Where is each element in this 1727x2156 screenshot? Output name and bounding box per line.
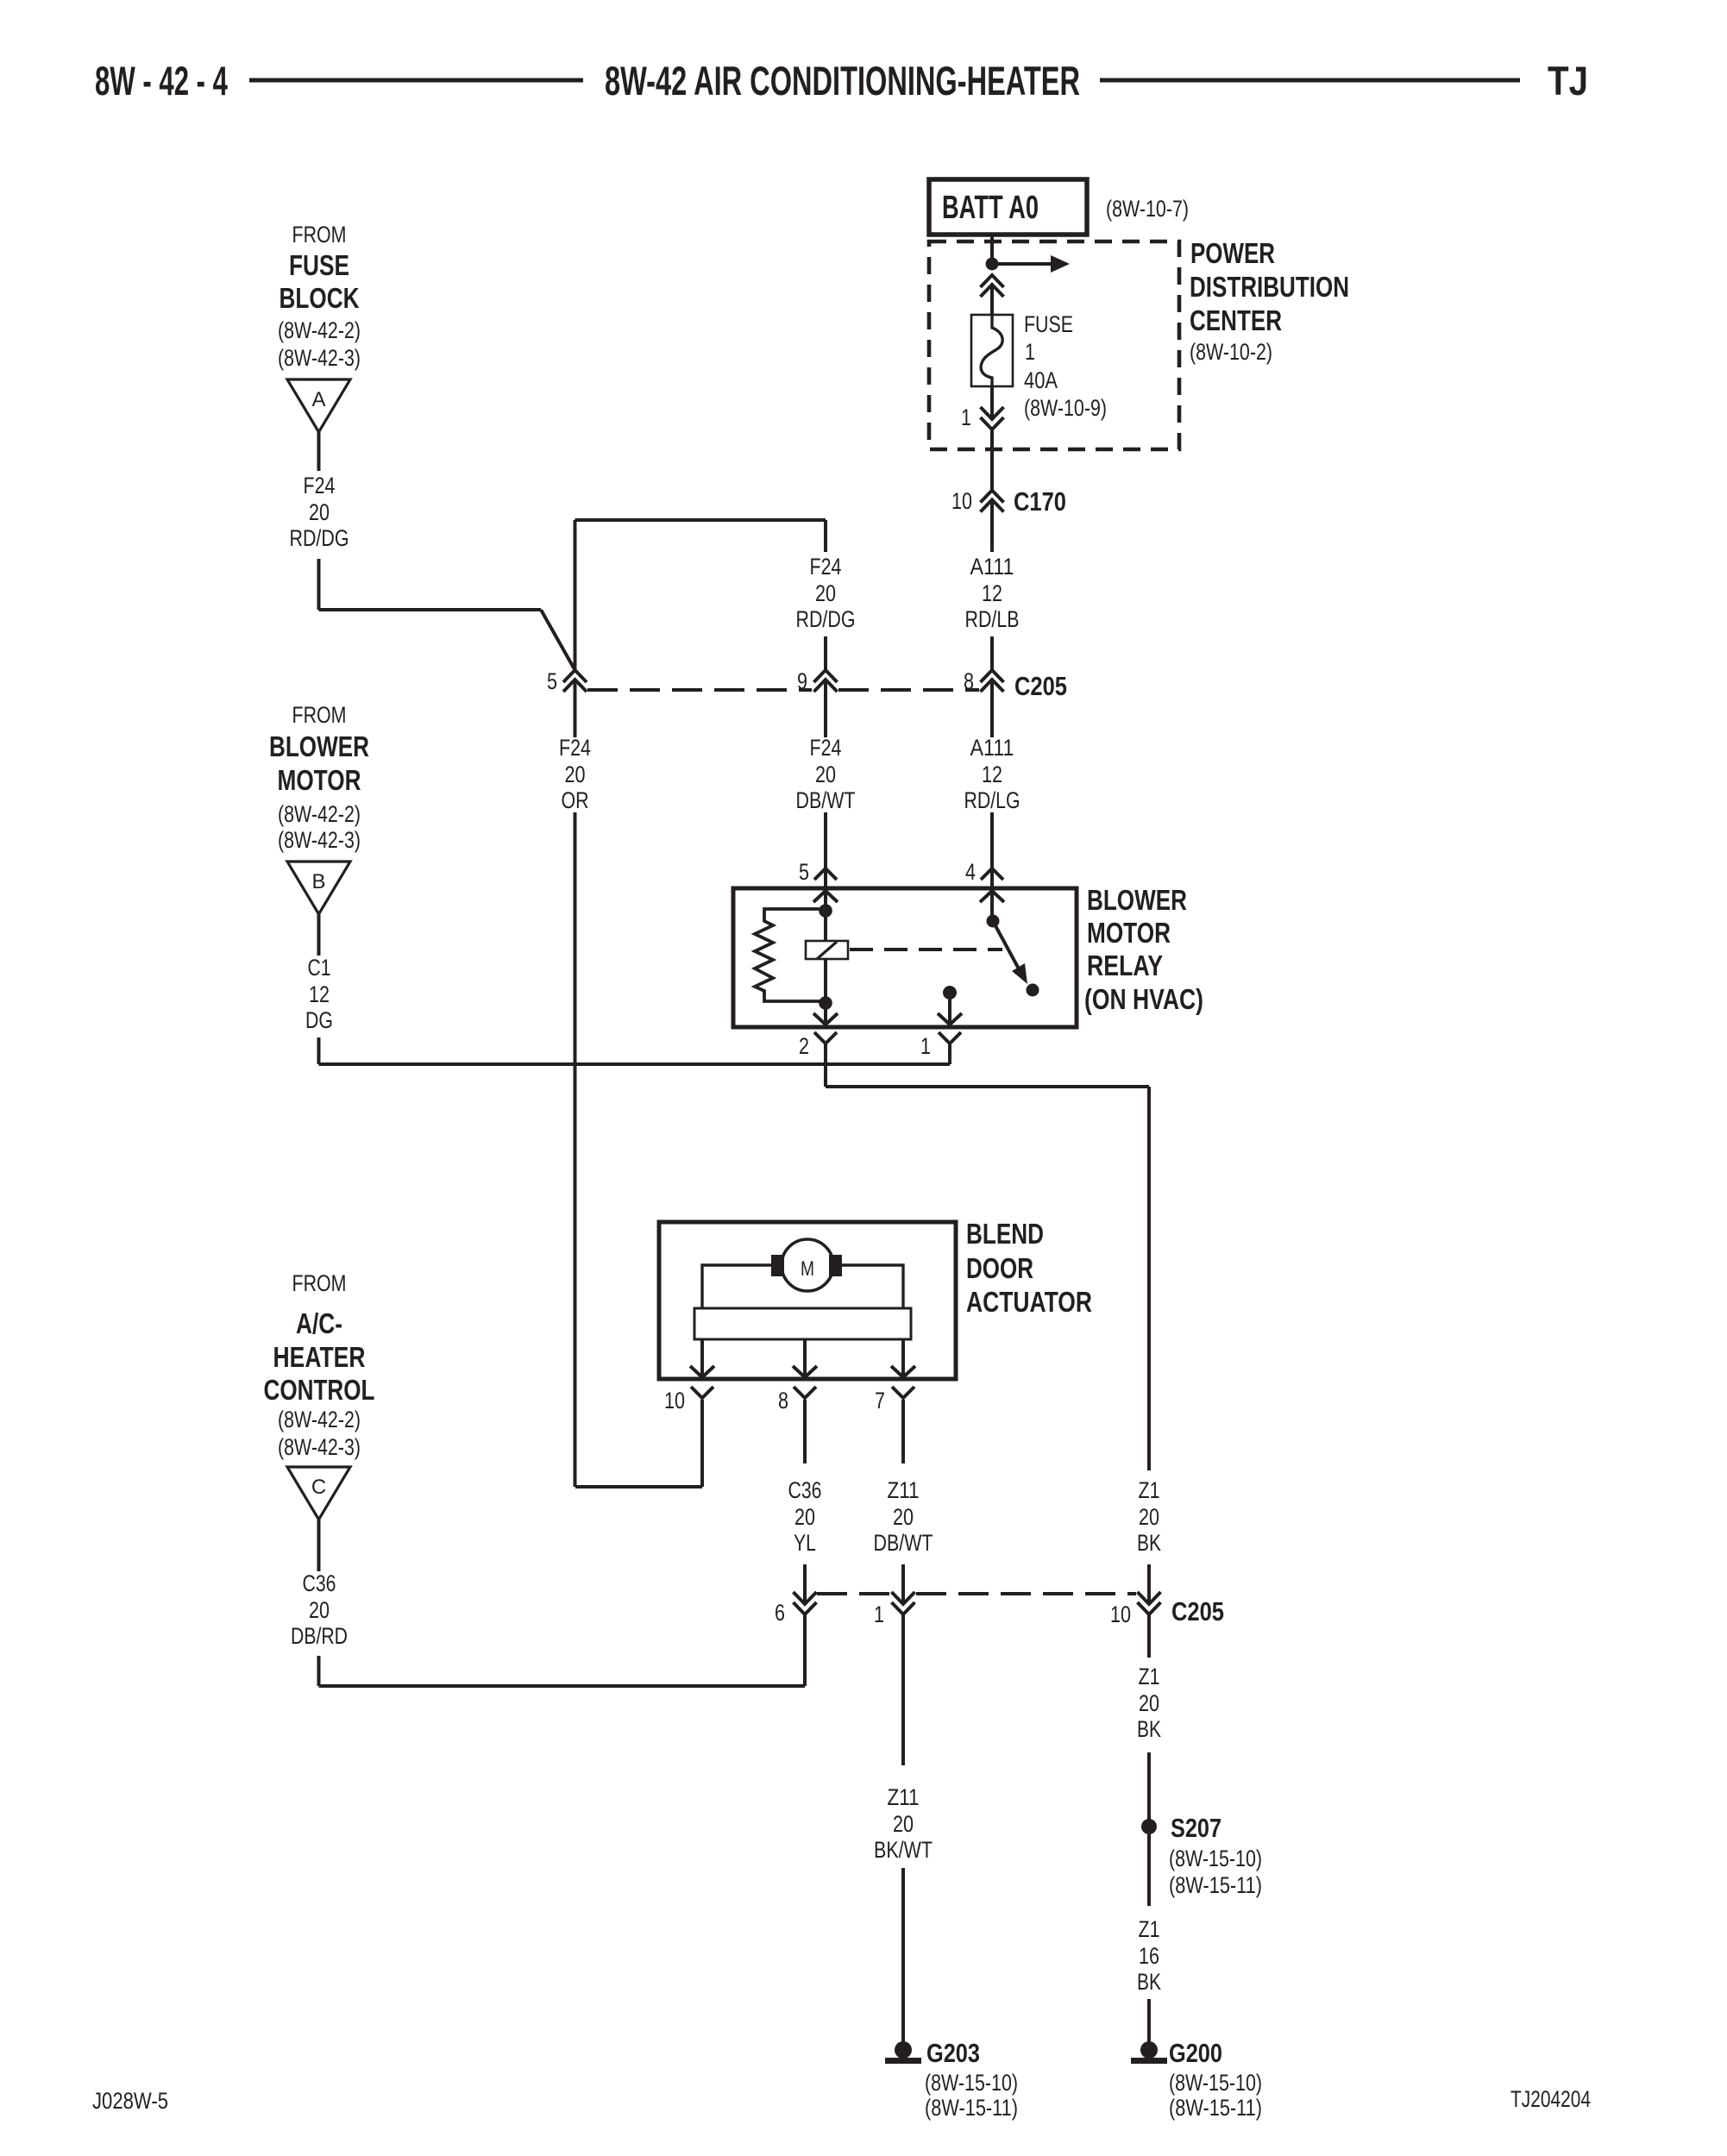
svg-text:7: 7: [875, 1388, 885, 1413]
wire BATT A0 into PDC: [990, 234, 994, 264]
svg-text:J028W-5: J028W-5: [92, 2088, 168, 2114]
svg-text:BK: BK: [1137, 1716, 1161, 1742]
ground symbol G200: [1140, 2041, 1158, 2059]
wire A111 to C170: [990, 429, 994, 491]
svg-text:FROM: FROM: [292, 702, 347, 728]
svg-text:C1: C1: [308, 955, 331, 981]
wire Z1 BK into C205 pin 10: [1147, 1564, 1151, 1604]
wire C36 DB/RD vertical to bend: [317, 1656, 321, 1686]
svg-text:(8W-15-11): (8W-15-11): [1169, 1872, 1262, 1898]
wire from triangle B down: [317, 914, 321, 956]
relay pin 1 internal dot: [943, 986, 957, 1000]
svg-text:OR: OR: [562, 787, 589, 813]
blend door actuator box: [659, 1222, 956, 1379]
header rule left: [249, 78, 583, 83]
relay pin 1 internal wire: [948, 993, 951, 1025]
junction dot in PDC: [986, 258, 999, 271]
relay pin 2 exit arrowhead: [813, 1013, 838, 1025]
svg-text:(8W-42-3): (8W-42-3): [278, 1434, 361, 1460]
wire actuator pin 8 inside box: [803, 1339, 807, 1380]
svg-text:F24: F24: [559, 735, 591, 761]
svg-text:C205: C205: [1014, 671, 1067, 701]
wire F24 DB/WT into relay pin 5: [824, 812, 827, 942]
wire Z11 DB/WT into C205 pin 1: [901, 1564, 905, 1604]
wire A111 RD/LG below C205 pin 8: [990, 680, 994, 737]
svg-text:20: 20: [794, 1504, 815, 1530]
motor brush tab right: [829, 1255, 842, 1276]
wire Z1 vertical down: [1147, 1087, 1151, 1470]
wire F24 OR long vertical: [574, 812, 577, 1487]
wire actuator pin 10 inside box: [700, 1339, 704, 1380]
wire C1 DG horizontal to relay pin 1: [319, 1062, 951, 1066]
wire stub down to F24 RD/DG label: [824, 520, 827, 552]
wire Z1 below S207: [1147, 1834, 1151, 1906]
relay pin 2 male vee: [814, 1032, 837, 1044]
svg-text:4: 4: [965, 859, 976, 885]
svg-text:8W-42 AIR CONDITIONING-HEATER: 8W-42 AIR CONDITIONING-HEATER: [605, 58, 1080, 103]
svg-text:12: 12: [982, 761, 1002, 787]
svg-text:C: C: [311, 1476, 326, 1499]
svg-text:A/C-: A/C-: [296, 1307, 342, 1339]
wire actuator pin 7 down: [901, 1400, 905, 1463]
svg-text:BK: BK: [1137, 1530, 1161, 1556]
connector C205 pin 5 chevron: [563, 670, 587, 682]
actuator motor right lead: [842, 1265, 903, 1308]
svg-text:A: A: [311, 388, 325, 411]
relay pin 1 male vee: [939, 1032, 961, 1044]
wire relay pin 1 stub down: [948, 1044, 951, 1064]
relay pin 4 female chevron: [981, 868, 1003, 880]
relay coil diagonal: [817, 942, 837, 959]
svg-text:(8W-10-2): (8W-10-2): [1190, 339, 1272, 365]
power distribution center dashed box: [929, 241, 1179, 449]
actuator motor left lead: [702, 1265, 771, 1308]
svg-text:POWER: POWER: [1190, 237, 1275, 269]
actuator pin 7 exit arrowhead: [891, 1366, 915, 1377]
svg-text:Z1: Z1: [1139, 1477, 1160, 1503]
wire F24 DB/WT below C205 pin 9: [824, 680, 827, 737]
svg-text:FROM: FROM: [292, 222, 347, 248]
svg-text:12: 12: [309, 981, 330, 1007]
svg-text:ACTUATOR: ACTUATOR: [966, 1286, 1092, 1318]
svg-text:G203: G203: [926, 2038, 980, 2068]
svg-text:Z1: Z1: [1139, 1916, 1160, 1942]
wire F24 OR below C205 pin 5: [574, 680, 577, 737]
wire Z1 BK to ground G200: [1147, 1999, 1151, 2044]
header rule right: [1100, 78, 1520, 83]
svg-text:MOTOR: MOTOR: [278, 764, 361, 796]
svg-text:C205: C205: [1171, 1596, 1224, 1626]
svg-text:(8W-42-2): (8W-42-2): [278, 317, 361, 343]
connector C205 pin 8 chevron: [981, 670, 1004, 682]
wire F24 OR to actuator pin 10 horizontal: [575, 1485, 702, 1489]
relay coil box: [806, 941, 848, 959]
fuse 1 40A element box: [971, 315, 1013, 386]
actuator pin 8 male vee: [794, 1387, 816, 1398]
connector C205 lower dashed body (6-1): [817, 1592, 889, 1595]
svg-text:BK: BK: [1137, 1969, 1161, 1995]
svg-text:M: M: [801, 1257, 814, 1281]
svg-text:RELAY: RELAY: [1087, 950, 1163, 981]
relay switch contact dot: [1027, 984, 1039, 997]
wire A111 RD/LB into C205 pin 8: [990, 636, 994, 670]
power source box BATT A0: [929, 179, 1087, 235]
svg-text:DB/WT: DB/WT: [874, 1530, 933, 1556]
svg-text:(8W-15-10): (8W-15-10): [925, 2070, 1018, 2096]
actuator pin 10 exit arrowhead: [690, 1366, 714, 1377]
svg-text:6: 6: [775, 1600, 785, 1626]
svg-text:1: 1: [920, 1033, 931, 1059]
svg-text:20: 20: [893, 1811, 914, 1837]
svg-text:FUSE: FUSE: [289, 249, 349, 281]
svg-text:DB/WT: DB/WT: [796, 787, 856, 813]
wire actuator pin 8 down: [803, 1400, 807, 1463]
wire Z11 BK/WT below C205: [901, 1614, 905, 1765]
svg-text:DISTRIBUTION: DISTRIBUTION: [1190, 271, 1349, 303]
relay internal junction dot (coil bottom): [819, 996, 832, 1010]
svg-text:BLEND: BLEND: [966, 1218, 1044, 1250]
svg-text:20: 20: [1139, 1690, 1159, 1716]
svg-text:(8W-15-11): (8W-15-11): [925, 2095, 1018, 2121]
svg-text:RD/DG: RD/DG: [290, 525, 349, 551]
svg-text:20: 20: [815, 761, 836, 787]
connector C205 pin 10 chevron: [1138, 1592, 1161, 1604]
wire A111 RD/LG into relay pin 4: [990, 812, 994, 921]
motor brush tab left: [771, 1255, 784, 1276]
connector C205 lower dashed body (1-10): [916, 1592, 1136, 1595]
svg-text:16: 16: [1139, 1943, 1159, 1969]
svg-text:C36: C36: [303, 1570, 336, 1596]
svg-text:MOTOR: MOTOR: [1087, 917, 1171, 949]
relay switch blade: [993, 921, 1021, 974]
svg-text:F24: F24: [810, 554, 842, 580]
svg-text:A111: A111: [970, 554, 1014, 580]
svg-text:20: 20: [565, 761, 586, 787]
relay switch pivot dot: [987, 915, 1000, 928]
wire actuator pin 10 down: [700, 1400, 704, 1487]
relay pin 5 female chevron: [814, 868, 837, 880]
connector C205 pin 9 chevron: [814, 670, 838, 682]
actuator pin 8 exit arrowhead: [793, 1366, 817, 1377]
svg-text:12: 12: [982, 580, 1002, 606]
relay K1 blower motor relay box: [733, 888, 1077, 1027]
svg-text:DB/RD: DB/RD: [291, 1623, 348, 1649]
actuator motor M circle: [782, 1239, 833, 1291]
actuator pin 7 male vee: [892, 1387, 914, 1398]
svg-text:F24: F24: [810, 735, 842, 761]
connector C205 pin 1 chevron: [892, 1592, 915, 1604]
svg-text:DOOR: DOOR: [966, 1252, 1033, 1284]
svg-text:C170: C170: [1014, 486, 1066, 517]
relay internal resistor: [755, 909, 826, 1001]
svg-text:10: 10: [951, 488, 972, 514]
PDC output chevron pin 1: [981, 407, 1004, 419]
svg-text:1: 1: [874, 1601, 884, 1627]
svg-text:Z11: Z11: [888, 1477, 920, 1503]
svg-text:RD/DG: RD/DG: [796, 606, 856, 632]
svg-text:A111: A111: [970, 735, 1014, 761]
connector C170 pin 10 chevron: [981, 491, 1004, 503]
svg-text:2: 2: [799, 1033, 809, 1059]
svg-text:(8W-42-3): (8W-42-3): [278, 345, 361, 371]
svg-text:BATT A0: BATT A0: [942, 190, 1039, 226]
svg-text:20: 20: [309, 1597, 330, 1623]
svg-text:10: 10: [664, 1388, 685, 1413]
wire Z11 BK/WT to ground G203: [901, 1868, 905, 2044]
wire F24 RD/DG horizontal run: [319, 608, 542, 611]
svg-text:20: 20: [309, 499, 330, 525]
svg-text:FUSE: FUSE: [1024, 311, 1073, 337]
svg-text:(8W-42-2): (8W-42-2): [278, 1407, 361, 1432]
wire C36 DB/RD horizontal run: [319, 1684, 806, 1688]
wire fuse output: [990, 386, 994, 419]
svg-text:(8W-10-7): (8W-10-7): [1106, 196, 1189, 222]
svg-text:BLOWER: BLOWER: [1087, 884, 1187, 916]
svg-text:BLOWER: BLOWER: [269, 730, 369, 762]
actuator position sensor bar: [694, 1308, 911, 1339]
relay switch blade arrowhead: [1012, 963, 1027, 984]
wire Z1 horizontal from relay pin 2: [826, 1085, 1149, 1088]
connector C205 dashed body (pins 5-9): [587, 688, 812, 692]
svg-text:Z11: Z11: [888, 1784, 920, 1810]
svg-text:TJ: TJ: [1548, 58, 1588, 103]
in-PDC chevron connector: [981, 275, 1004, 287]
wire relay pin 2 down: [824, 1044, 827, 1087]
svg-text:20: 20: [893, 1504, 914, 1530]
off-page connector triangle A (from fuse block): [287, 379, 350, 432]
wire F24 RD/DG vertical to bend: [317, 559, 321, 610]
svg-text:(8W-15-11): (8W-15-11): [1169, 2095, 1262, 2121]
svg-text:20: 20: [815, 580, 836, 606]
svg-text:S207: S207: [1171, 1813, 1221, 1843]
svg-text:(8W-10-9): (8W-10-9): [1024, 395, 1107, 421]
svg-text:20: 20: [1139, 1504, 1159, 1530]
wire actuator pin 7 inside box: [901, 1339, 905, 1380]
svg-text:5: 5: [547, 668, 557, 694]
wire F24 RD/DG into C205 pin 9: [824, 636, 827, 670]
svg-text:Z1: Z1: [1139, 1664, 1160, 1689]
wire from triangle C down: [317, 1519, 321, 1571]
svg-text:DG: DG: [305, 1007, 333, 1033]
svg-text:(8W-42-3): (8W-42-3): [278, 827, 361, 853]
svg-text:TJ204204: TJ204204: [1510, 2086, 1591, 2112]
wire down to fuse 1: [990, 285, 994, 315]
relay pin 1 exit arrowhead: [938, 1013, 962, 1025]
svg-text:(8W-15-10): (8W-15-10): [1169, 2070, 1262, 2096]
relay actuation dashed link: [850, 948, 1002, 951]
svg-text:HEATER: HEATER: [273, 1341, 366, 1373]
wire A111 below C170: [990, 500, 994, 553]
svg-text:8: 8: [778, 1388, 788, 1413]
svg-text:C36: C36: [788, 1477, 822, 1503]
wire C1 DG vertical to bend: [317, 1037, 321, 1064]
branch arrowhead in PDC: [1051, 255, 1070, 273]
relay pin 5 entry arrowhead: [813, 891, 838, 902]
svg-text:8W - 42 - 4: 8W - 42 - 4: [95, 58, 228, 103]
fuse 1 squiggle element: [981, 315, 1002, 386]
off-page connector triangle C (from a/c-heater control): [287, 1467, 350, 1520]
svg-text:1: 1: [1025, 339, 1035, 365]
svg-text:40A: 40A: [1024, 367, 1058, 393]
svg-text:FROM: FROM: [292, 1270, 347, 1296]
svg-text:(8W-42-2): (8W-42-2): [278, 801, 361, 827]
wire C36 YL into C205 pin 6: [803, 1564, 807, 1604]
svg-text:1: 1: [961, 404, 971, 430]
connector C205 pin 6 chevron: [794, 1592, 817, 1604]
svg-text:5: 5: [799, 859, 809, 885]
wire C36 up to C205 pin 6: [803, 1614, 807, 1686]
svg-text:BLOCK: BLOCK: [279, 282, 360, 314]
wire F24 RD/DG diagonal to C205 pin 5: [541, 610, 575, 670]
wire branch horizontal at top: [575, 518, 826, 522]
connector C205 dashed body (pins 9-8): [838, 688, 979, 692]
svg-text:(8W-15-10): (8W-15-10): [1169, 1846, 1262, 1871]
relay pin 4 entry arrowhead: [980, 891, 1004, 902]
off-page connector triangle B (from blower motor): [287, 862, 350, 914]
svg-text:BK/WT: BK/WT: [874, 1837, 933, 1863]
wire Z1 BK to splice S207: [1147, 1752, 1151, 1820]
svg-text:B: B: [311, 870, 325, 893]
wire Z1 BK below C205 pin 10: [1147, 1614, 1151, 1658]
relay internal junction dot (coil top): [819, 904, 832, 918]
svg-text:F24: F24: [304, 473, 336, 498]
svg-text:(ON HVAC): (ON HVAC): [1084, 983, 1203, 1015]
svg-text:CENTER: CENTER: [1190, 304, 1282, 336]
wire branch vertical into C205 pin 5: [574, 520, 577, 670]
svg-text:YL: YL: [794, 1530, 816, 1556]
svg-text:10: 10: [1110, 1601, 1131, 1627]
splice S207 dot: [1141, 1819, 1157, 1834]
wire from triangle A down: [317, 432, 321, 471]
ground symbol G203: [895, 2041, 912, 2059]
actuator pin 10 male vee: [691, 1387, 713, 1398]
wire relay pin 2 inside box: [824, 959, 827, 1026]
svg-text:RD/LB: RD/LB: [965, 606, 1020, 632]
branch arrow wire in PDC: [992, 262, 1051, 266]
svg-text:CONTROL: CONTROL: [264, 1374, 375, 1406]
svg-text:G200: G200: [1169, 2038, 1222, 2068]
svg-text:RD/LG: RD/LG: [964, 787, 1020, 813]
